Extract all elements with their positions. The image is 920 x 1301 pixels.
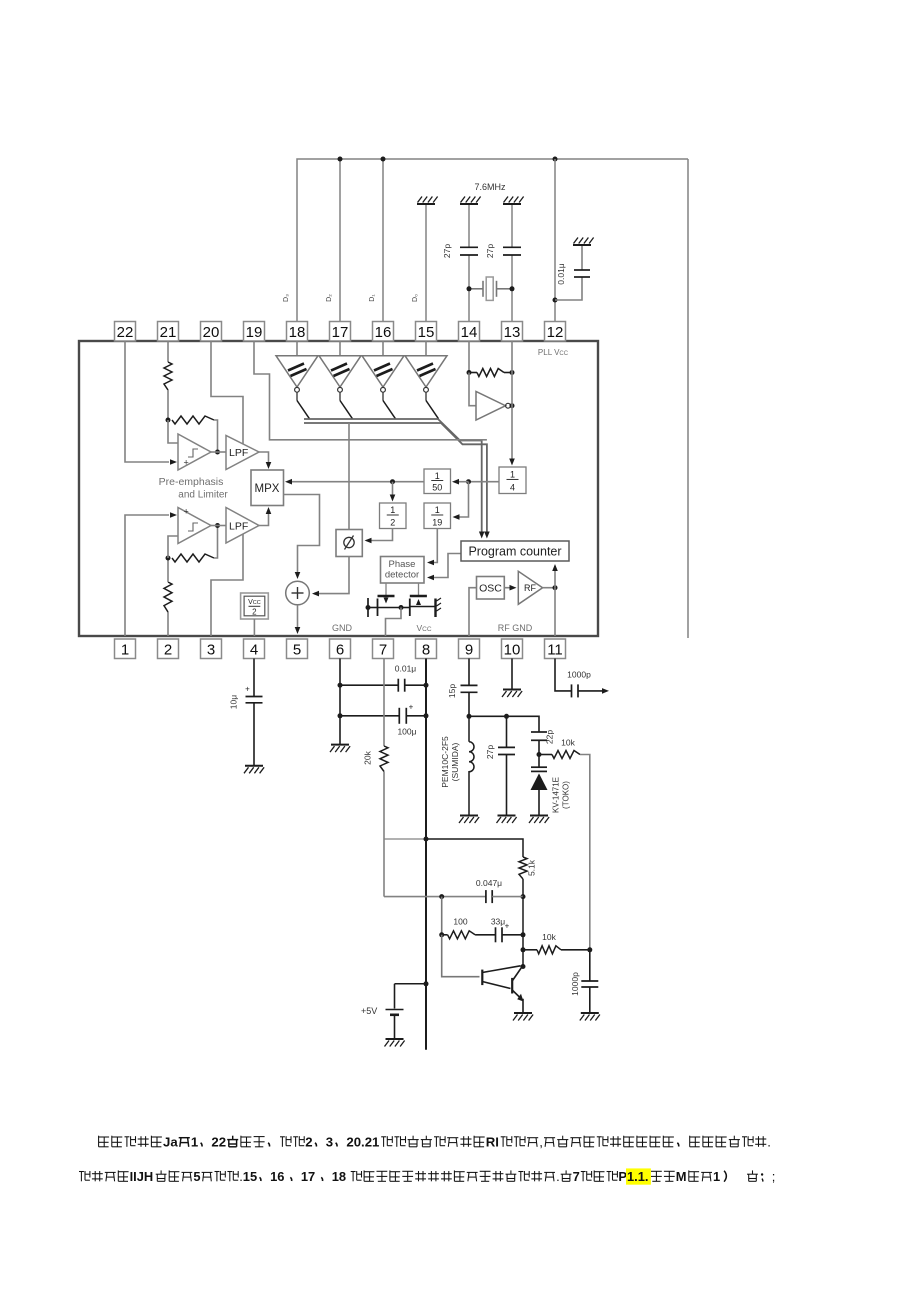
pin 17 bbox=[330, 322, 351, 342]
svg-text:5.1k: 5.1k bbox=[527, 859, 537, 876]
capacitor 0.047u bbox=[485, 890, 487, 903]
svg-text:D₁: D₁ bbox=[369, 294, 376, 302]
svg-text:21: 21 bbox=[160, 324, 177, 341]
node tank b bbox=[504, 714, 509, 719]
ground below 10u bbox=[245, 765, 263, 767]
pin 10 bbox=[502, 639, 523, 659]
resistor R pin21 bbox=[164, 362, 172, 390]
arrow RF output bbox=[602, 688, 609, 694]
phase detector box bbox=[381, 557, 425, 584]
program counter box bbox=[461, 541, 569, 561]
wire 100 to 33u bbox=[475, 934, 495, 936]
pin 8 bbox=[416, 639, 437, 659]
svg-text:GND: GND bbox=[332, 623, 353, 633]
svg-text:7: 7 bbox=[379, 642, 387, 659]
svg-text:12: 12 bbox=[547, 324, 564, 341]
pin 7 bbox=[373, 639, 394, 659]
svg-text:19: 19 bbox=[246, 324, 263, 341]
node pin6 a bbox=[338, 683, 343, 688]
varactor KV-1471E bbox=[538, 755, 540, 768]
svg-text:MPX: MPX bbox=[255, 483, 280, 495]
wire pin12 to rail bbox=[554, 159, 556, 322]
ground below varactor bbox=[530, 815, 548, 817]
rail bar Vcc charge pump bbox=[434, 599, 436, 618]
svg-text:10μ: 10μ bbox=[229, 695, 239, 709]
arrow into opamp2 + bbox=[170, 512, 177, 518]
arrow into RF bbox=[510, 585, 517, 591]
svg-text:D₃: D₃ bbox=[283, 294, 290, 302]
pin 15 bbox=[416, 322, 437, 342]
wire 1/19 to phase detector bbox=[430, 529, 438, 563]
pin 4 bbox=[244, 639, 265, 659]
ground below pin10 bbox=[503, 689, 521, 691]
svg-text:RF: RF bbox=[524, 583, 536, 593]
svg-text:PEM10C-2F5: PEM10C-2F5 bbox=[440, 736, 450, 788]
wire pin14 osc bbox=[468, 341, 470, 373]
wire osc to 1/4 bbox=[511, 373, 513, 462]
pin 13 bbox=[502, 322, 523, 342]
wire node to opamp1 - bbox=[168, 420, 178, 443]
node collector top bbox=[521, 894, 526, 899]
arrow into summer right bbox=[312, 591, 319, 597]
node tank a bbox=[467, 714, 472, 719]
ground below Q2 bbox=[514, 1012, 532, 1014]
svg-text:100: 100 bbox=[453, 917, 467, 927]
caption line 1 bbox=[99, 1136, 110, 1147]
svg-text:33μ: 33μ bbox=[491, 917, 505, 927]
arrow into 1/2 bbox=[390, 495, 396, 502]
resistor 10k upper bbox=[552, 751, 580, 759]
capacitor 33u electrolytic bbox=[495, 927, 497, 942]
wire 33u to collector line bbox=[502, 934, 523, 936]
wire pin2 into IC bbox=[167, 612, 169, 636]
ground below 27p ext bbox=[498, 815, 516, 817]
wire pin3 to LPF2 bbox=[211, 534, 243, 636]
wire to 1/50 bbox=[455, 481, 469, 483]
svg-text:+: + bbox=[409, 703, 414, 712]
svg-text:1000p: 1000p bbox=[567, 670, 591, 680]
svg-text:0.01μ: 0.01μ bbox=[556, 263, 566, 285]
battery +5V bbox=[394, 984, 396, 1009]
svg-text:2: 2 bbox=[305, 1135, 312, 1150]
wire RF out arrow bbox=[578, 690, 605, 692]
wire 0.01u bypass bbox=[340, 684, 398, 686]
svg-text:22: 22 bbox=[117, 324, 134, 341]
svg-text:D₂: D₂ bbox=[326, 294, 333, 302]
wire summer to pin5 bbox=[297, 605, 299, 629]
svg-text:10k: 10k bbox=[561, 738, 575, 748]
wire top Vcc rail bbox=[297, 159, 688, 322]
svg-text:15p: 15p bbox=[447, 684, 457, 698]
wire LPF2 to MPX bbox=[259, 513, 269, 526]
wire 22p to varactor node bbox=[538, 740, 540, 754]
resistor feedback 1 bbox=[172, 416, 214, 424]
wire feedback2 to output bbox=[214, 526, 218, 558]
wire pin9 down bbox=[468, 659, 470, 686]
wire 0.047u to collector bbox=[492, 896, 523, 898]
wire pin11 RF out bbox=[555, 659, 572, 691]
wire pin6 down bbox=[339, 659, 341, 745]
node 38k b bbox=[390, 479, 395, 484]
svg-text:Ja: Ja bbox=[163, 1135, 178, 1150]
wire rail drop right bbox=[687, 159, 689, 638]
node charge pump left bbox=[366, 605, 371, 610]
pin 14 bbox=[459, 322, 480, 342]
ground below pin6 bbox=[331, 744, 349, 746]
svg-text:+5V: +5V bbox=[361, 1006, 377, 1016]
node collectors bbox=[521, 964, 526, 969]
svg-text:14: 14 bbox=[461, 324, 478, 341]
wire program counter to phase detector bbox=[430, 554, 462, 578]
wire to 1/19 bbox=[455, 482, 469, 517]
svg-text:27p: 27p bbox=[485, 745, 495, 759]
wire 15p to node bbox=[468, 692, 470, 716]
svg-text:0.01μ: 0.01μ bbox=[395, 664, 417, 674]
node pin6 b bbox=[338, 713, 343, 718]
node pin8 b bbox=[424, 713, 429, 718]
wire +5V to rail bbox=[395, 983, 427, 985]
junction crystal left bbox=[467, 286, 472, 291]
inductor PEM10C-2F5 bbox=[469, 716, 474, 815]
wire inverter out bbox=[510, 405, 512, 407]
arrow gate2 bbox=[416, 599, 421, 605]
node opamp2 inv bbox=[166, 556, 171, 561]
svg-text:+: + bbox=[505, 922, 510, 931]
wire out to 10k lower bbox=[523, 949, 537, 951]
wire 10k lower to vline bbox=[561, 949, 590, 951]
wire Vcc/2 to pin4 bbox=[253, 619, 255, 636]
wire node to opamp2 - bbox=[168, 536, 178, 558]
svg-text:20k: 20k bbox=[363, 750, 373, 764]
wire 1/2 to phase shifter bbox=[367, 529, 393, 541]
node RF out bbox=[553, 585, 558, 590]
svg-text:KV-1471E: KV-1471E bbox=[552, 777, 561, 813]
ground below 1000p bbox=[581, 1012, 599, 1014]
block OSC bbox=[477, 577, 505, 600]
ground below inductor bbox=[460, 815, 478, 817]
svg-text:1: 1 bbox=[510, 470, 515, 480]
junction on rail at pin16 bbox=[381, 157, 386, 162]
wire osc in down bbox=[469, 373, 476, 406]
summer circle bbox=[286, 581, 310, 605]
mosfet Q down bbox=[367, 598, 369, 617]
svg-text:9: 9 bbox=[465, 642, 473, 659]
svg-text:RF GND: RF GND bbox=[498, 623, 533, 633]
divider 1/2 bbox=[380, 503, 407, 529]
pin 22 bbox=[115, 322, 136, 342]
node 38k a bbox=[466, 479, 471, 484]
switch wiper pin 16 bbox=[383, 401, 396, 419]
wire 10k to lower section bbox=[580, 755, 590, 950]
resistor 100 bbox=[448, 931, 476, 939]
arrow to pin5 bbox=[295, 627, 301, 634]
svg-text:5: 5 bbox=[193, 1169, 200, 1184]
wire opamp2 out to LPF2 bbox=[211, 525, 226, 527]
divider 1/19 bbox=[424, 503, 451, 529]
junction on rail at pin12 bbox=[553, 157, 558, 162]
svg-text:18: 18 bbox=[289, 324, 306, 341]
wire af node down bbox=[441, 897, 443, 935]
svg-text:22p: 22p bbox=[545, 730, 555, 744]
svg-text:20.21: 20.21 bbox=[346, 1135, 379, 1150]
divider 1/50 bbox=[424, 469, 451, 494]
wire opamp1 out to LPF1 bbox=[211, 451, 226, 453]
wire pin17 to rail bbox=[339, 159, 341, 322]
svg-text:1: 1 bbox=[435, 471, 440, 481]
svg-text:.: . bbox=[556, 1169, 560, 1184]
svg-text:100μ: 100μ bbox=[397, 727, 416, 737]
capacitor 27p right bbox=[503, 246, 521, 248]
svg-text:18: 18 bbox=[332, 1169, 346, 1184]
wire LPF1 to MPX bbox=[259, 452, 269, 462]
pin 21 bbox=[158, 322, 179, 342]
arrow into summer top bbox=[295, 572, 301, 579]
wire 27p ext bbox=[506, 716, 508, 747]
ground above 0.01u bbox=[573, 244, 591, 246]
svg-text:2: 2 bbox=[164, 642, 172, 659]
svg-text:17: 17 bbox=[332, 324, 349, 341]
IC body BH1415 bbox=[79, 341, 598, 636]
pin 11 bbox=[545, 639, 566, 659]
wire R2 to node bbox=[167, 558, 169, 582]
capacitor 22p bbox=[531, 731, 547, 733]
svg-text:8: 8 bbox=[422, 642, 430, 659]
junction pin12 branch bbox=[553, 298, 558, 303]
resistor osc feedback bbox=[469, 372, 477, 374]
svg-text:Pre-emphasis: Pre-emphasis bbox=[159, 476, 224, 488]
node opamp2 out bbox=[215, 523, 220, 528]
resistor R pin2 bbox=[164, 582, 172, 612]
wire pin16 to rail bbox=[382, 159, 384, 322]
caption line 2 bbox=[79, 1171, 90, 1181]
wire 10u to ground bbox=[253, 703, 255, 766]
svg-text:detector: detector bbox=[385, 570, 419, 581]
wire to 1/2 bbox=[392, 482, 394, 497]
wire pin13 osc bbox=[511, 341, 513, 373]
transistor Q2 bbox=[511, 978, 513, 994]
svg-text:17: 17 bbox=[301, 1169, 315, 1184]
pin 16 bbox=[373, 322, 394, 342]
svg-text:11: 11 bbox=[547, 642, 563, 659]
arrow bus into program counter bbox=[479, 532, 485, 539]
wire pin7 down bbox=[383, 659, 385, 747]
crystal X1 7.6MHz bbox=[469, 288, 483, 290]
data bus lower bbox=[304, 423, 487, 534]
wire +B to 5.1k bbox=[426, 839, 523, 857]
arrow into MPX bottom bbox=[266, 507, 272, 514]
wire 0.01u branch bbox=[555, 278, 582, 301]
arrow gate1 bbox=[384, 598, 389, 604]
arrow into 1/19 bbox=[453, 514, 460, 520]
svg-text:;: ; bbox=[772, 1169, 776, 1184]
svg-text:6: 6 bbox=[336, 642, 344, 659]
wire 100u line bbox=[340, 715, 399, 717]
svg-text:20: 20 bbox=[203, 324, 220, 341]
node af bbox=[439, 894, 444, 899]
svg-text:19: 19 bbox=[432, 517, 442, 527]
wire pin21 into IC bbox=[167, 341, 169, 362]
svg-text:+: + bbox=[245, 685, 250, 694]
wire feedback to output bbox=[214, 420, 218, 452]
resistor 5.1k bbox=[519, 857, 527, 879]
capacitor 1000p lower bbox=[581, 980, 598, 982]
node charge pump mid bbox=[399, 605, 404, 610]
switch wiper pin 18 bbox=[297, 401, 310, 419]
wire 5.1k to collector node bbox=[522, 879, 524, 897]
phase shifter box bbox=[336, 530, 362, 557]
wire pin14 crystal branch bbox=[468, 256, 470, 323]
wire MPX out bbox=[284, 495, 320, 575]
resistor 10k lower bbox=[537, 946, 561, 954]
svg-text:D₀: D₀ bbox=[412, 294, 419, 302]
wire 1/4 out bbox=[471, 481, 499, 483]
arrow into opamp1 + bbox=[170, 459, 177, 465]
svg-text:1000p: 1000p bbox=[570, 972, 580, 996]
arrow into MPX top bbox=[266, 462, 272, 469]
svg-text:1: 1 bbox=[713, 1169, 720, 1184]
inverter osc bbox=[476, 392, 506, 421]
svg-text:50: 50 bbox=[432, 483, 442, 493]
node mod bbox=[587, 947, 592, 952]
capacitor 1000p out bbox=[571, 684, 573, 697]
wire phase det to gate2 bbox=[418, 583, 420, 597]
capacitor 10u electrolytic bbox=[246, 696, 263, 698]
capacitor 100u electrolytic bbox=[398, 708, 400, 724]
resistor 20k bbox=[380, 746, 388, 772]
svg-text:22: 22 bbox=[211, 1135, 226, 1150]
node opamp1 inv bbox=[166, 418, 171, 423]
svg-text:1: 1 bbox=[121, 642, 129, 659]
svg-text:(TOKO): (TOKO) bbox=[562, 781, 571, 809]
pin 1 bbox=[115, 639, 136, 659]
RF amp triangle bbox=[518, 571, 542, 604]
junction on rail at pin17 bbox=[338, 157, 343, 162]
svg-text:2: 2 bbox=[390, 517, 395, 527]
node +5V rail bbox=[424, 981, 429, 986]
wire pin8 supply rail bbox=[425, 659, 427, 1050]
svg-text:1.1.: 1.1. bbox=[627, 1169, 649, 1184]
op-amp U2 pre-emphasis bbox=[178, 508, 211, 544]
wire phase det to gate1 bbox=[385, 583, 387, 599]
arrow into phase det b bbox=[427, 575, 434, 581]
svg-text:Phase: Phase bbox=[389, 559, 416, 570]
svg-text:Program counter: Program counter bbox=[468, 545, 561, 559]
flip-flop D2 pin 17 bbox=[339, 341, 341, 356]
ground below battery bbox=[386, 1038, 404, 1040]
wire pin10 to ground bbox=[511, 659, 513, 690]
wire pin22 to opamp1 + bbox=[125, 341, 169, 462]
capacitor 27p left bbox=[460, 246, 478, 248]
wire af2 to 100 bbox=[442, 934, 448, 936]
svg-text:15: 15 bbox=[418, 324, 435, 341]
wire RF out bbox=[543, 587, 555, 589]
svg-text:10k: 10k bbox=[542, 932, 556, 942]
wire af2 to base bbox=[442, 935, 480, 977]
wire R to node bbox=[167, 390, 169, 420]
svg-text:4: 4 bbox=[510, 482, 515, 492]
transistor Q1 bbox=[481, 970, 483, 986]
wire pin9 to OSC bbox=[469, 588, 477, 636]
svg-text:+: + bbox=[184, 458, 189, 468]
svg-text:(SUMIDA): (SUMIDA) bbox=[450, 742, 460, 781]
svg-text:RI: RI bbox=[486, 1135, 499, 1150]
junction crystal right bbox=[510, 286, 515, 291]
node opamp1 out bbox=[215, 450, 220, 455]
node pin8 a bbox=[424, 683, 429, 688]
svg-text:1: 1 bbox=[435, 505, 440, 515]
flip-flop D3 pin 18 bbox=[296, 341, 298, 356]
capacitor 0.01u bypass bbox=[397, 679, 399, 692]
pin 2 bbox=[158, 639, 179, 659]
node af2 bbox=[439, 932, 444, 937]
svg-text:5: 5 bbox=[293, 642, 301, 659]
ground above 27p right bbox=[503, 203, 521, 205]
svg-text:7: 7 bbox=[573, 1169, 580, 1184]
wire OSC to RF bbox=[504, 587, 511, 589]
svg-text:3: 3 bbox=[207, 642, 215, 659]
svg-text:VCC: VCC bbox=[248, 599, 261, 606]
op-amp U1 pre-emphasis bbox=[178, 434, 211, 470]
wire pin7 stub to +B node bbox=[384, 838, 426, 840]
arrow into 1/50 bbox=[452, 479, 459, 485]
wire 1/50 to MPX bbox=[288, 481, 424, 483]
ground above 27p left bbox=[460, 203, 478, 205]
svg-text:1: 1 bbox=[191, 1135, 198, 1150]
svg-text:LPF: LPF bbox=[229, 521, 248, 533]
pin 3 bbox=[201, 639, 222, 659]
svg-text:+: + bbox=[184, 507, 189, 517]
node varactor bbox=[537, 752, 542, 757]
node +B top bbox=[424, 837, 429, 842]
wire pin20 to LPF1 bbox=[211, 341, 243, 445]
pin 19 bbox=[244, 322, 265, 342]
wire 1000p to ground bbox=[589, 987, 591, 1013]
divider 1/4 bbox=[499, 467, 526, 494]
capacitor 15p bbox=[461, 684, 478, 686]
svg-text:13: 13 bbox=[504, 324, 521, 341]
pin 6 bbox=[330, 639, 351, 659]
data bus upper bbox=[304, 419, 482, 534]
wire tank bus bbox=[469, 716, 539, 732]
svg-text:16: 16 bbox=[375, 324, 392, 341]
wire 27p to ground bbox=[506, 755, 508, 816]
node osc out top bbox=[510, 370, 515, 375]
svg-text:27p: 27p bbox=[442, 244, 452, 258]
svg-text:LPF: LPF bbox=[229, 447, 248, 459]
svg-text:7.6MHz: 7.6MHz bbox=[474, 182, 506, 192]
switch wiper pin 17 bbox=[340, 401, 353, 419]
wire pin1 to opamp2 + bbox=[125, 515, 169, 636]
arrow into PC bottom bbox=[552, 564, 558, 571]
arrow into MPX right bbox=[285, 479, 292, 485]
svg-text:and Limiter: and Limiter bbox=[178, 490, 228, 501]
svg-text:16: 16 bbox=[270, 1169, 284, 1184]
svg-text:27p: 27p bbox=[485, 244, 495, 258]
wire charge pump out to pin7 bbox=[386, 608, 402, 637]
svg-text:.: . bbox=[767, 1135, 771, 1150]
wire pin13 crystal branch bbox=[511, 256, 513, 323]
svg-text:,: , bbox=[539, 1135, 543, 1150]
svg-text:15: 15 bbox=[243, 1169, 257, 1184]
capacitor 0.01u top right bbox=[574, 269, 590, 271]
arrow into phase shifter bbox=[365, 538, 372, 544]
pin 20 bbox=[201, 322, 222, 342]
capacitor 27p ext bbox=[498, 746, 515, 748]
pin 12 bbox=[545, 322, 566, 342]
svg-text:3: 3 bbox=[326, 1135, 333, 1150]
low-pass LPF1 bbox=[226, 436, 259, 470]
block Vcc/2 regulator bbox=[241, 593, 269, 619]
